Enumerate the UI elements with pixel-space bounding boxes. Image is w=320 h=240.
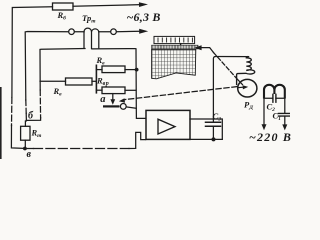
svg-text:в: в — [27, 149, 32, 159]
svg-text:~220 В: ~220 В — [249, 130, 292, 144]
svg-text:а: а — [100, 94, 105, 105]
svg-text:~6,3 В: ~6,3 В — [127, 10, 161, 24]
